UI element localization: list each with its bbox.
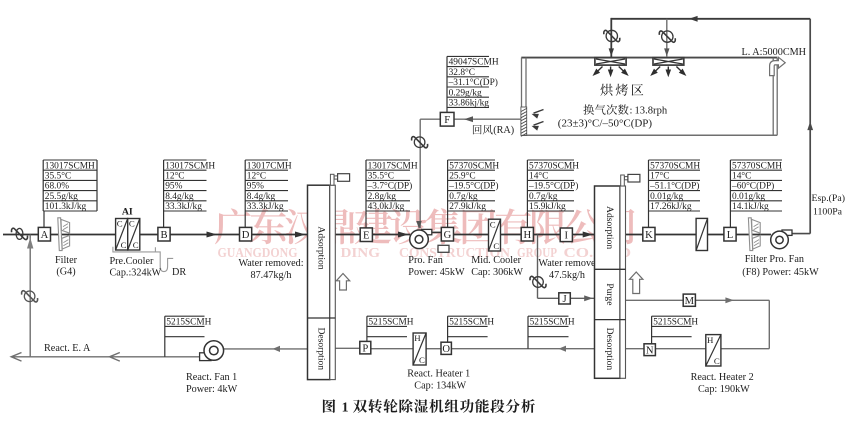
- wire: fan to G: [432, 231, 442, 233]
- wire: after-filter to L: [708, 234, 724, 236]
- final fan: [782, 230, 792, 235]
- svg-text:13017SCMH: 13017SCMH: [45, 161, 95, 171]
- svg-text:1100Pa: 1100Pa: [813, 207, 843, 218]
- wire: wheel 1 to E: [335, 234, 360, 236]
- svg-text:A: A: [41, 230, 49, 241]
- wire: P to wheel 1: [335, 347, 360, 349]
- svg-text:1: 1: [342, 400, 349, 415]
- data table at node A: [43, 159, 97, 161]
- svg-text:C: C: [490, 219, 496, 229]
- damper at inlet: [16, 228, 23, 239]
- react fan 1: [200, 353, 211, 361]
- svg-text:Water removed:: Water removed:: [238, 258, 303, 269]
- process fan: [422, 229, 432, 234]
- wire: right riser: [809, 19, 811, 234]
- wire: heater 1 to P: [371, 348, 413, 350]
- svg-text:0.7g/kg: 0.7g/kg: [449, 192, 478, 202]
- svg-text:13017CMH: 13017CMH: [247, 161, 292, 171]
- wire: M to react riser: [695, 299, 769, 301]
- svg-text:12°C: 12°C: [165, 171, 184, 182]
- svg-text:–31.1°C(DP): –31.1°C(DP): [448, 77, 498, 88]
- svg-text:0.29g/kg: 0.29g/kg: [449, 88, 482, 98]
- svg-text:14°C: 14°C: [529, 171, 548, 182]
- svg-text:33.86kj/kg: 33.86kj/kg: [449, 99, 490, 109]
- svg-text:(23±3)°C/–50°C(DP): (23±3)°C/–50°C(DP): [558, 117, 653, 129]
- svg-text:25.5g/kg: 25.5g/kg: [45, 192, 78, 202]
- data table at node G: [448, 159, 495, 161]
- svg-text:React. Heater 1: React. Heater 1: [407, 369, 470, 380]
- node N: [644, 344, 655, 356]
- svg-text:–19.5°C(DP): –19.5°C(DP): [448, 181, 498, 192]
- wire: main line start: [3, 234, 38, 236]
- svg-text:React. Heater 2: React. Heater 2: [691, 372, 754, 383]
- svg-text:AI: AI: [122, 207, 133, 218]
- svg-text:13017SCMH: 13017SCMH: [165, 161, 215, 171]
- svg-text:I: I: [565, 231, 569, 242]
- svg-text:Desorption: Desorption: [604, 328, 615, 371]
- node M: [683, 294, 695, 306]
- svg-text:C: C: [714, 356, 720, 366]
- node J: [559, 293, 571, 304]
- svg-text:–51.1°C(DP): –51.1°C(DP): [649, 181, 699, 192]
- svg-text:87.47kg/h: 87.47kg/h: [250, 270, 291, 281]
- svg-text:8.4g/kg: 8.4g/kg: [165, 192, 194, 202]
- svg-text:Adsorption: Adsorption: [316, 226, 327, 269]
- svg-text:(RA): (RA): [493, 125, 514, 136]
- wire: wheel 2 to O: [452, 348, 595, 350]
- 5215 flag above P: [367, 315, 407, 317]
- react heater 2: [706, 335, 721, 366]
- svg-text:H: H: [414, 333, 421, 343]
- 5215 flag above react line (wheel2 side): [528, 315, 569, 317]
- svg-text:Cap: 190kW: Cap: 190kW: [698, 384, 750, 395]
- svg-text:Purge: Purge: [604, 283, 615, 305]
- svg-text:27.9kJ/kg: 27.9kJ/kg: [449, 202, 486, 212]
- figure caption: [323, 399, 335, 413]
- wire: O to heater 1: [426, 348, 441, 350]
- svg-text:Adsorption: Adsorption: [604, 206, 615, 249]
- wire: K to after-filter: [655, 234, 696, 236]
- svg-text:C: C: [419, 355, 425, 365]
- mid cooler: [489, 219, 501, 251]
- data table at node E: [366, 159, 410, 161]
- wire: pre-cooler to B: [140, 234, 158, 236]
- svg-text:C: C: [493, 241, 499, 251]
- diffuser 2 discharge arrows: [667, 67, 669, 73]
- wheel 1 drive shaft and motor: [330, 174, 334, 185]
- node I: [560, 228, 572, 242]
- arrows into return grille: [534, 110, 544, 114]
- wheel 1 rotation arrow: [336, 274, 349, 291]
- svg-text:17°C: 17°C: [650, 171, 669, 182]
- svg-text:Mid. Cooler: Mid. Cooler: [471, 255, 521, 266]
- damper on drop 1: [606, 30, 617, 41]
- svg-text:35.5°C: 35.5°C: [45, 171, 71, 182]
- node O: [441, 342, 451, 354]
- svg-text:57370SCMH: 57370SCMH: [650, 161, 700, 171]
- svg-text:32.8°C: 32.8°C: [449, 67, 475, 78]
- wire: E to process fan: [372, 234, 410, 236]
- supply diffuser 2: [653, 58, 684, 65]
- svg-text:0.01g/kg: 0.01g/kg: [650, 192, 683, 202]
- svg-text:0.7g/kg: 0.7g/kg: [529, 192, 558, 202]
- wheel 2 rotation arrow: [630, 272, 643, 294]
- svg-text:5215SCMH: 5215SCMH: [653, 318, 698, 328]
- data table at node D: [245, 159, 288, 161]
- after filter box: [696, 218, 707, 250]
- wire: G to mid cooler: [453, 234, 489, 236]
- filter G4 icon: [58, 218, 70, 251]
- svg-text:L: L: [727, 230, 733, 241]
- svg-text:N: N: [646, 345, 654, 356]
- svg-text:H: H: [523, 230, 531, 241]
- diffuser 1 discharge arrows: [610, 67, 612, 73]
- svg-text:95%: 95%: [247, 182, 264, 192]
- wire: final fan outlet to riser: [791, 233, 810, 235]
- wheel 2 (adsorption/purge/desorption rotor): [595, 186, 621, 378]
- svg-text:J: J: [562, 294, 566, 305]
- node F: [440, 112, 454, 126]
- wire: riser to heater 2: [721, 348, 769, 350]
- wire: B to D: [170, 234, 239, 236]
- svg-text:Filter: Filter: [55, 255, 78, 266]
- node G: [441, 227, 453, 241]
- svg-text:14°C: 14°C: [732, 171, 751, 182]
- svg-text:(G4): (G4): [56, 267, 75, 278]
- svg-text:F: F: [444, 115, 450, 126]
- svg-text:–3.7°C(DP): –3.7°C(DP): [367, 181, 413, 192]
- svg-text:–60°C(DP): –60°C(DP): [731, 181, 774, 192]
- svg-text:Desorption: Desorption: [316, 327, 327, 370]
- svg-text:13017SCMH: 13017SCMH: [368, 161, 418, 171]
- supply diffuser 1: [595, 58, 626, 65]
- data table at node H: [527, 159, 574, 161]
- wire: purge out to M: [626, 299, 684, 301]
- svg-text:G: G: [444, 230, 452, 241]
- svg-text::: :: [630, 106, 633, 117]
- node K: [643, 227, 655, 241]
- svg-text:Pre.Cooler: Pre.Cooler: [110, 256, 154, 267]
- svg-text:12°C: 12°C: [247, 171, 266, 182]
- svg-text:13.8rph: 13.8rph: [635, 106, 668, 117]
- node L: [724, 227, 736, 241]
- svg-text:K: K: [645, 230, 653, 241]
- svg-text:43.0kJ/kg: 43.0kJ/kg: [368, 202, 405, 212]
- svg-text:Power: 45kW: Power: 45kW: [408, 267, 465, 278]
- wire: react fan outlet to exhaust: [12, 356, 200, 358]
- svg-text:101.3kJ/kg: 101.3kJ/kg: [45, 202, 87, 212]
- node E: [360, 228, 372, 242]
- wire: return air line to node F: [454, 118, 521, 120]
- svg-text:P: P: [362, 343, 368, 354]
- svg-text:57370SCMH: 57370SCMH: [449, 161, 499, 171]
- small box below G: [438, 245, 449, 252]
- damper on purge branch: [533, 277, 544, 288]
- svg-text:14.1kJ/kg: 14.1kJ/kg: [732, 202, 769, 212]
- node H: [521, 227, 533, 241]
- wire: D to wheel 1: [252, 234, 308, 236]
- svg-text:D: D: [242, 230, 250, 241]
- svg-text:25.9°C: 25.9°C: [449, 171, 475, 182]
- svg-text:49047SCMH: 49047SCMH: [449, 58, 499, 68]
- svg-text:33.3kJ/kg: 33.3kJ/kg: [165, 202, 202, 212]
- svg-text:H: H: [707, 335, 714, 345]
- svg-text:Filter Pro. Fan: Filter Pro. Fan: [745, 254, 804, 265]
- svg-text:B: B: [160, 230, 167, 241]
- svg-text:68.0%: 68.0%: [45, 182, 69, 192]
- svg-text:5215SCMH: 5215SCMH: [369, 318, 414, 328]
- svg-text:8.4g/kg: 8.4g/kg: [247, 192, 276, 202]
- react heater 1: [413, 333, 426, 365]
- svg-text:C: C: [121, 240, 127, 250]
- svg-text:C: C: [133, 240, 139, 250]
- svg-text:5215SCMH: 5215SCMH: [449, 318, 494, 328]
- svg-text:(F8) Power: 45kW: (F8) Power: 45kW: [742, 267, 819, 278]
- svg-text:57370SCMH: 57370SCMH: [732, 161, 782, 171]
- wheel 2 drive shaft and motor: [621, 175, 625, 186]
- wire: react riser down: [768, 300, 770, 348]
- svg-text:47.5kg/h: 47.5kg/h: [549, 270, 585, 281]
- wire: J to wheel 2 purge: [571, 297, 595, 299]
- svg-text:C: C: [117, 219, 123, 229]
- wire: heater 2 to N: [655, 348, 705, 350]
- wire: recirculation vertical at left: [29, 235, 31, 357]
- svg-text:Water remove: Water remove: [538, 258, 596, 269]
- room: baking area outline: [521, 57, 777, 59]
- svg-text:Pro. Fan: Pro. Fan: [408, 255, 443, 266]
- node B: [158, 227, 170, 241]
- svg-text:E: E: [363, 230, 369, 241]
- svg-text:Esp.(Pa): Esp.(Pa): [812, 193, 845, 204]
- data table at node F: [447, 55, 489, 57]
- wire: N to wheel 2: [626, 348, 645, 350]
- svg-text:Cap.:324kW: Cap.:324kW: [110, 268, 162, 279]
- wire: top supply duct: [611, 18, 810, 20]
- return grille on room left wall: [521, 107, 527, 135]
- svg-text:57370SCMH: 57370SCMH: [529, 161, 579, 171]
- svg-text:33.3kJ/kg: 33.3kJ/kg: [247, 202, 284, 212]
- 5215 flag above N: [652, 315, 692, 317]
- 5215 flag above O: [448, 315, 488, 317]
- wire: F to fan drop: [420, 118, 440, 120]
- wire: I to wheel 2: [572, 234, 594, 236]
- svg-text:0.01g/kg: 0.01g/kg: [732, 192, 765, 202]
- svg-text:Cap: 134kW: Cap: 134kW: [414, 380, 466, 391]
- svg-text:L. A:5000CMH: L. A:5000CMH: [742, 47, 807, 58]
- data table at node K: [649, 159, 701, 161]
- wire: mid cooler to H: [501, 234, 522, 236]
- svg-text:Power: 4kW: Power: 4kW: [186, 384, 238, 395]
- wire: wheel 1 to react fan: [222, 348, 308, 350]
- pre-cooler drain bracket and trap DR: [113, 247, 173, 272]
- svg-text:DING: DING: [341, 246, 381, 261]
- svg-text:Cap: 306kW: Cap: 306kW: [471, 267, 523, 278]
- room label: air change rate: [583, 104, 594, 115]
- pre-cooler: [116, 219, 128, 251]
- svg-text:15.9kJ/kg: 15.9kJ/kg: [529, 202, 566, 212]
- 5215 flag above react fan: [165, 315, 205, 317]
- svg-text:C: C: [129, 219, 135, 229]
- node A: [38, 227, 50, 241]
- data table at node L: [730, 159, 782, 161]
- node D: [240, 227, 252, 241]
- svg-text:35.5°C: 35.5°C: [368, 171, 394, 182]
- node P: [360, 341, 371, 354]
- svg-text:React. E. A: React. E. A: [44, 343, 91, 354]
- svg-text:95%: 95%: [165, 182, 182, 192]
- wire: A to pre-cooler: [51, 234, 116, 236]
- svg-text:17.26kJ/kg: 17.26kJ/kg: [650, 202, 692, 212]
- svg-text:React. Fan 1: React. Fan 1: [186, 372, 237, 383]
- wheel 1 (adsorption/desorption rotor): [308, 185, 330, 379]
- wire: L to final fan: [735, 234, 771, 236]
- svg-text:–19.5°C(DP): –19.5°C(DP): [528, 181, 578, 192]
- room label: baking zone: [600, 84, 612, 96]
- data table at node B: [164, 159, 207, 161]
- filter F8 icon: [748, 218, 760, 251]
- svg-text:5215SCMH: 5215SCMH: [166, 318, 211, 328]
- damper on left vertical: [24, 291, 35, 302]
- svg-text:M: M: [685, 296, 695, 307]
- damper on drop 2: [662, 31, 673, 42]
- wire: supply drop 2: [666, 19, 668, 57]
- wire: wheel 2 to K: [626, 234, 643, 236]
- damper on return drop: [414, 137, 425, 148]
- watermark line 1: company name in Chinese: [215, 208, 251, 244]
- svg-text:DR: DR: [172, 267, 186, 278]
- return air label: [473, 125, 482, 134]
- svg-text:5215SCMH: 5215SCMH: [530, 318, 575, 328]
- svg-text:O: O: [442, 344, 450, 355]
- wire: purge branch from H: [537, 235, 539, 299]
- leak air hook arrow: [770, 57, 786, 75]
- wire: supply drop 1: [610, 18, 612, 57]
- wire: H to I: [533, 234, 560, 236]
- svg-text:2.8g/kg: 2.8g/kg: [368, 192, 397, 202]
